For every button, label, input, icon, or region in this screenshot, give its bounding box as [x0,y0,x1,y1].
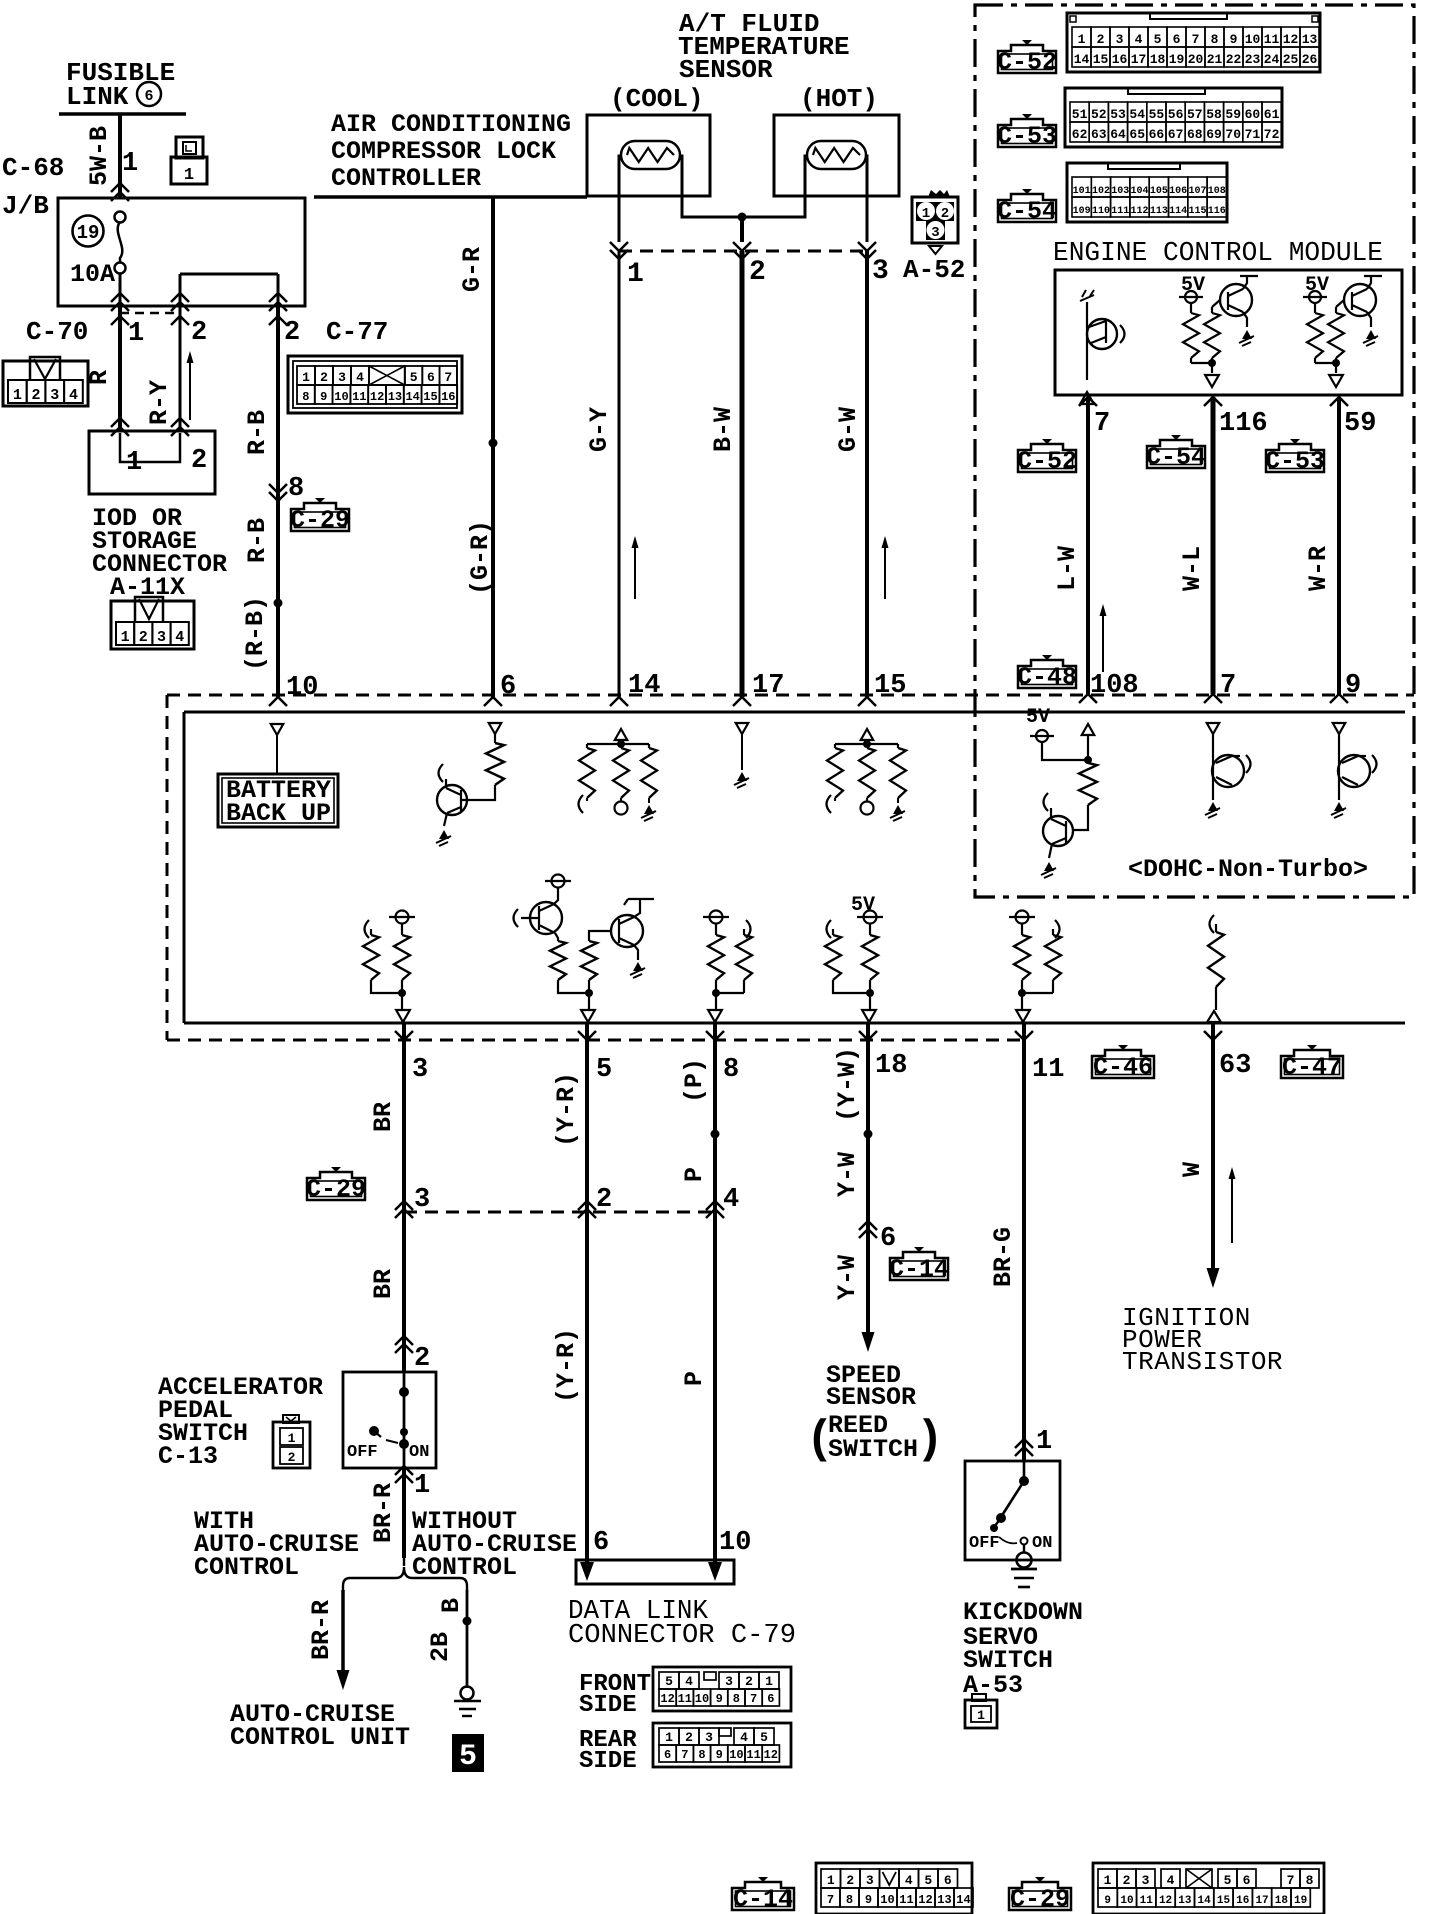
svg-text:BR-G: BR-G [989,1227,1018,1287]
svg-text:2: 2 [745,1674,753,1689]
svg-text:BR-R: BR-R [369,1483,398,1543]
kickdown lever [1001,1481,1024,1517]
pin chevron into J/B [111,183,129,201]
svg-text:7: 7 [1287,1873,1295,1888]
svg-text:B-W: B-W [709,407,738,452]
wire fuse to J/B bottom [119,273,122,306]
svg-text:55: 55 [1149,107,1165,122]
svg-text:4: 4 [1135,32,1143,47]
connector C-52 label icon [998,45,1056,73]
svg-text:1: 1 [827,1873,835,1888]
wire BR upper [402,1023,406,1209]
svg-text:59: 59 [1344,409,1376,439]
svg-text:59: 59 [1225,107,1241,122]
branch split curl [396,1548,412,1578]
svg-text:13: 13 [1302,32,1318,47]
svg-text:1: 1 [922,206,930,222]
wire G-R [491,197,495,697]
svg-text:5: 5 [665,1674,673,1689]
svg-text:J/B: J/B [2,191,49,221]
ECU transistor Q8 [530,902,562,934]
svg-text:BR: BR [369,1102,398,1132]
svg-text:19: 19 [1294,1895,1307,1907]
svg-text:3: 3 [412,1055,428,1085]
svg-text:1: 1 [13,387,22,404]
svg-text:1: 1 [288,1431,296,1446]
COOL right lead wire [680,156,742,217]
svg-text:20: 20 [1188,52,1204,67]
svg-text:3: 3 [931,225,939,241]
ECU transistor Q5 [1043,816,1073,846]
svg-text:1: 1 [414,1471,430,1501]
connector C-14 pin grid bottom [816,1863,972,1914]
svg-text:6: 6 [664,1748,671,1762]
connector C-29 icon upper [291,503,349,531]
svg-text:L-W: L-W [1053,546,1082,591]
svg-text:3: 3 [1142,1873,1150,1888]
connector C-29 label icon bottom [1009,1882,1071,1910]
svg-text:C-77: C-77 [326,317,388,347]
svg-text:2: 2 [1123,1873,1131,1888]
dashed link C-70 pins [120,312,180,315]
wire G-W [865,251,869,697]
pin17 ground [737,772,747,781]
wire P lower [713,1209,717,1576]
svg-text:G-W: G-W [834,407,863,452]
svg-text:A-52: A-52 [903,255,965,285]
ECU top pin chevrons [269,697,287,706]
svg-text:19: 19 [1169,52,1185,67]
svg-text:ON: ON [1032,1534,1052,1553]
wire B-W [740,251,745,697]
kickdown contact wire [1023,1461,1026,1481]
svg-text:8: 8 [288,474,304,504]
pin14 resistor bus [587,743,649,745]
pin14 input triangle [615,729,628,740]
svg-text:106: 106 [1169,186,1187,197]
svg-text:1: 1 [121,629,130,646]
ECU transistor Q6 [1212,755,1244,787]
svg-text:1: 1 [977,1708,985,1723]
ECU dashed top boundary [167,694,1414,697]
page ref 5 black box [452,1734,484,1772]
svg-text:10: 10 [729,1748,743,1762]
svg-text:4: 4 [1167,1873,1175,1888]
svg-text:P: P [680,1167,709,1182]
pin15 resistor Rc [890,748,906,798]
svg-text:TRANSISTOR: TRANSISTOR [1122,1347,1283,1377]
kickdown output [1023,1544,1025,1553]
svg-text:17: 17 [1131,52,1147,67]
svg-text:22: 22 [1226,52,1242,67]
svg-text:21: 21 [1207,52,1223,67]
ECM resistor RB2 [1211,307,1213,313]
A-52 dashed pin line [619,250,867,253]
svg-text:15: 15 [423,390,437,404]
svg-text:4: 4 [740,1730,748,1745]
svg-text:1: 1 [627,259,644,290]
ECM transistor Q3 [1344,284,1376,316]
svg-text:1: 1 [122,149,138,179]
svg-text:13: 13 [937,1893,951,1907]
wire BR-R stub [402,1468,406,1558]
ECM pin chevrons [1079,397,1097,406]
svg-text:C-52: C-52 [1017,447,1077,476]
svg-text:2B: 2B [426,1632,455,1662]
junction on G-R [489,439,498,448]
accel switch lever [369,1426,379,1436]
C-29 row chevrons [395,1201,413,1218]
pin14 resistor Rb [613,748,629,798]
branch split left [343,1578,396,1592]
wire 5W-B from fusible link [118,114,122,198]
svg-text:C-53: C-53 [997,122,1057,151]
J/B internal bus [180,273,278,276]
svg-text:10: 10 [880,1893,894,1907]
branch split right [412,1578,467,1592]
svg-text:(R-B): (R-B) [241,596,270,671]
svg-text:SENSOR: SENSOR [826,1383,916,1412]
svg-text:2: 2 [320,370,328,385]
svg-text:8: 8 [723,1055,739,1085]
svg-text:52: 52 [1091,107,1107,122]
svg-text:6: 6 [880,1224,896,1254]
connector C-53 label icon [998,119,1056,147]
connector C-54 pin grid [1067,163,1227,222]
svg-text:12: 12 [764,1748,778,1762]
5V link to pin108 [1042,742,1088,760]
svg-text:4: 4 [685,1674,693,1689]
up arrow beside G-W [884,542,886,599]
svg-text:11: 11 [899,1893,913,1907]
svg-text:65: 65 [1129,127,1145,142]
svg-text:104: 104 [1131,186,1149,197]
svg-text:2: 2 [414,1344,430,1374]
pin7 input triangle [1207,723,1220,734]
svg-text:14: 14 [1198,1895,1212,1907]
svg-text:107: 107 [1188,186,1206,197]
pin15 resistor bus [835,743,898,745]
svg-text:3: 3 [1116,32,1124,47]
svg-text:13: 13 [1178,1895,1192,1907]
up arrow beside L-W [1102,610,1104,672]
svg-text:C-47: C-47 [1282,1053,1342,1082]
ECU transistor Q7 [1338,755,1370,787]
IOD internal link [120,433,180,462]
wire BR lower [402,1209,406,1372]
svg-text:1: 1 [128,319,144,349]
pin17 input triangle [736,723,749,734]
svg-text:3: 3 [872,256,889,287]
svg-text:7: 7 [444,370,452,385]
svg-text:115: 115 [1188,206,1206,217]
svg-text:6: 6 [144,88,153,105]
pin5 resistor Rb [581,941,597,980]
wire W-R [1337,397,1341,694]
svg-text:2: 2 [284,318,300,348]
svg-text:P: P [680,1371,709,1386]
IOD connector box [89,431,215,494]
connector C-13 icon [273,1422,310,1468]
svg-text:13: 13 [388,390,402,404]
svg-text:(COOL): (COOL) [610,84,704,114]
svg-text:2: 2 [749,257,766,288]
svg-text:4: 4 [723,1185,739,1215]
pin chevrons into IOD [111,418,129,436]
svg-text:C-29: C-29 [290,506,350,535]
svg-text:51: 51 [1072,107,1088,122]
ECU transistor Q9 [611,915,643,947]
svg-text:112: 112 [1131,206,1149,217]
pin108 input triangle [1082,724,1095,735]
svg-text:6: 6 [1173,32,1181,47]
svg-text:W-R: W-R [1304,546,1333,591]
up arrow beside G-Y [634,542,636,599]
svg-text:14: 14 [956,1893,970,1907]
junction on P [711,1130,720,1139]
connector C-46 icon [1092,1050,1154,1078]
svg-text:16: 16 [441,390,455,404]
svg-text:70: 70 [1225,127,1241,142]
svg-text:12: 12 [660,1692,674,1706]
svg-text:SIDE: SIDE [579,1692,637,1719]
pin5 junction [558,980,589,993]
wire R-Y [179,306,182,431]
svg-text:(P): (P) [680,1058,709,1103]
svg-text:111: 111 [1111,206,1129,217]
svg-text:(Y-R): (Y-R) [552,1328,581,1403]
battery backup pin arrow [271,724,284,735]
pin chevrons at J/B bottom [111,293,129,311]
svg-text:6: 6 [767,1692,774,1706]
svg-text:2: 2 [1097,32,1105,47]
svg-text:5: 5 [760,1730,768,1745]
svg-text:8: 8 [302,390,309,404]
svg-text:5: 5 [596,1055,612,1085]
svg-text:CONNECTOR C-79: CONNECTOR C-79 [568,1621,796,1651]
svg-text:7: 7 [750,1692,757,1706]
svg-text:56: 56 [1168,107,1184,122]
speed sensor arrow [862,1332,875,1352]
pin15 input triangle [861,729,874,740]
ECM transistor Q1 [1087,319,1117,349]
pin15 resistor Rb [859,748,875,798]
pin14 resistor terminals [579,795,584,813]
svg-text:14: 14 [405,390,419,404]
svg-text:<DOHC-Non-Turbo>: <DOHC-Non-Turbo> [1128,855,1368,884]
svg-text:60: 60 [1245,107,1261,122]
wire P upper [713,1023,717,1209]
wire Y-W lower [866,1229,870,1332]
svg-text:C-54: C-54 [1146,443,1206,472]
svg-text:72: 72 [1264,127,1280,142]
svg-text:10: 10 [286,673,318,703]
connector C-47 icon [1281,1050,1343,1078]
ECM resistor RB1 [1190,303,1192,313]
svg-text:10: 10 [719,1528,751,1558]
svg-text:71: 71 [1245,127,1261,142]
svg-text:3: 3 [866,1873,874,1888]
C-14 chevron [859,1221,877,1238]
wire Y-R upper [585,1023,589,1209]
svg-text:67: 67 [1168,127,1184,142]
below accel chevron [395,1466,413,1483]
pin11 resistor pair [1016,911,1029,924]
svg-text:2: 2 [139,629,148,646]
svg-text:CONTROL UNIT: CONTROL UNIT [230,1723,410,1752]
svg-text:W: W [1178,1162,1207,1177]
ECM transistor Q2 [1220,284,1252,316]
circled 19 fuse number [73,216,104,247]
svg-text:C-68: C-68 [2,153,64,183]
svg-text:G-Y: G-Y [585,407,614,452]
svg-text:10: 10 [1245,32,1261,47]
svg-text:3: 3 [157,629,166,646]
svg-text:16: 16 [1112,52,1128,67]
battery back up box [218,774,338,827]
svg-text:58: 58 [1206,107,1222,122]
ECM group B junction [1190,358,1192,363]
up arrow beside R-Y [189,357,191,420]
svg-text:9: 9 [716,1748,723,1762]
svg-text:7: 7 [1094,409,1110,439]
svg-text:SIDE: SIDE [579,1748,637,1775]
connector C-14 label icon bottom [732,1882,794,1910]
svg-text:114: 114 [1169,206,1187,217]
svg-text:12: 12 [1159,1895,1172,1907]
svg-text:109: 109 [1073,206,1091,217]
svg-text:5: 5 [459,1740,477,1774]
svg-text:C-48: C-48 [1017,663,1077,692]
fuse 10A symbol [115,212,126,223]
svg-text:8: 8 [846,1893,853,1907]
svg-text:5: 5 [1224,1873,1232,1888]
svg-text:11: 11 [352,390,366,404]
auto-cruise arrow [337,1670,350,1690]
pin15 resistor terminals [827,795,832,813]
wire G-Y [618,251,621,697]
HOT right lead wire [866,156,867,242]
svg-text:25: 25 [1283,52,1299,67]
svg-text:26: 26 [1302,52,1318,67]
svg-text:24: 24 [1264,52,1280,67]
HOT thermistor [807,141,866,169]
svg-text:12: 12 [918,1893,932,1907]
pin14 resistor Ra [579,748,595,798]
svg-text:11: 11 [1032,1055,1064,1085]
fusible link bus bar [59,112,186,116]
A-52 pin chevrons [610,242,628,259]
svg-text:8: 8 [1211,32,1219,47]
svg-text:7: 7 [1192,32,1200,47]
wire W-L [1211,397,1216,694]
connector A-11X icon [111,601,194,649]
svg-text:57: 57 [1187,107,1203,122]
svg-text:3: 3 [338,370,346,385]
svg-text:BR-R: BR-R [307,1600,336,1660]
rear side pin grid [653,1723,791,1767]
svg-text:1: 1 [1078,32,1086,47]
svg-text:113: 113 [1150,206,1168,217]
svg-text:14: 14 [1074,52,1090,67]
svg-text:C-53: C-53 [1265,447,1325,476]
svg-text:4: 4 [175,629,184,646]
svg-text:5W-B: 5W-B [85,126,114,186]
svg-text:1: 1 [765,1674,773,1689]
svg-text:63: 63 [1219,1051,1251,1081]
svg-text:105: 105 [1150,186,1168,197]
accel switch contact wire [403,1372,406,1467]
engine control module box [1055,270,1402,395]
svg-text:COMPRESSOR LOCK: COMPRESSOR LOCK [331,137,556,166]
svg-text:C-46: C-46 [1093,1053,1153,1082]
svg-text:R-B: R-B [243,410,272,455]
svg-text:63: 63 [1091,127,1107,142]
data link connector box [576,1560,734,1584]
svg-text:2: 2 [941,206,949,222]
svg-text:(HOT): (HOT) [800,84,878,114]
connector C-52 pin grid [1067,13,1320,72]
svg-text:BR: BR [369,1269,398,1299]
svg-text:OFF: OFF [969,1534,1000,1553]
wire Y-W mid [866,1134,870,1229]
controller bus line [314,195,587,199]
wire R [118,306,122,431]
svg-text:5V: 5V [851,894,875,917]
junction on B wire [463,1617,472,1626]
svg-text:1: 1 [184,166,194,185]
svg-text:11: 11 [746,1748,760,1762]
svg-text:102: 102 [1092,186,1110,197]
HOT sensor box [774,115,899,196]
svg-text:6: 6 [944,1873,952,1888]
svg-text:C-14: C-14 [889,1255,949,1284]
svg-text:2: 2 [191,318,207,348]
svg-text:61: 61 [1264,107,1280,122]
svg-text:C-29: C-29 [1010,1885,1070,1914]
wire BR-G [1022,1023,1026,1461]
COOL left lead wire [619,156,621,242]
connector C-53 icon mid [1266,444,1324,472]
svg-text:11: 11 [1140,1895,1154,1907]
svg-text:53: 53 [1110,107,1126,122]
wire Y-W upper [866,1023,870,1134]
svg-text:ON: ON [409,1443,429,1462]
svg-text:62: 62 [1072,127,1088,142]
pin6 pull resistor [486,743,504,785]
svg-text:2: 2 [32,387,41,404]
svg-text:11: 11 [1264,32,1280,47]
svg-text:LINK: LINK [66,82,129,112]
svg-text:19: 19 [77,222,100,244]
svg-text:5: 5 [924,1873,932,1888]
svg-text:4: 4 [69,387,78,404]
svg-text:R-B: R-B [243,518,272,563]
svg-text:B: B [437,1598,466,1613]
ECM resistor RC1 [1314,303,1316,313]
kickdown servo switch box [965,1461,1060,1560]
svg-text:R-Y: R-Y [145,380,174,425]
connector A-53 icon [965,1700,997,1728]
svg-text:10A: 10A [70,260,115,289]
svg-text:6: 6 [500,672,516,702]
connector C-77 icon [288,356,462,413]
svg-text:17: 17 [1255,1895,1268,1907]
svg-text:103: 103 [1111,186,1129,197]
svg-text:8: 8 [698,1748,705,1762]
svg-text:AIR CONDITIONING: AIR CONDITIONING [331,110,571,139]
svg-text:C-70: C-70 [26,317,88,347]
